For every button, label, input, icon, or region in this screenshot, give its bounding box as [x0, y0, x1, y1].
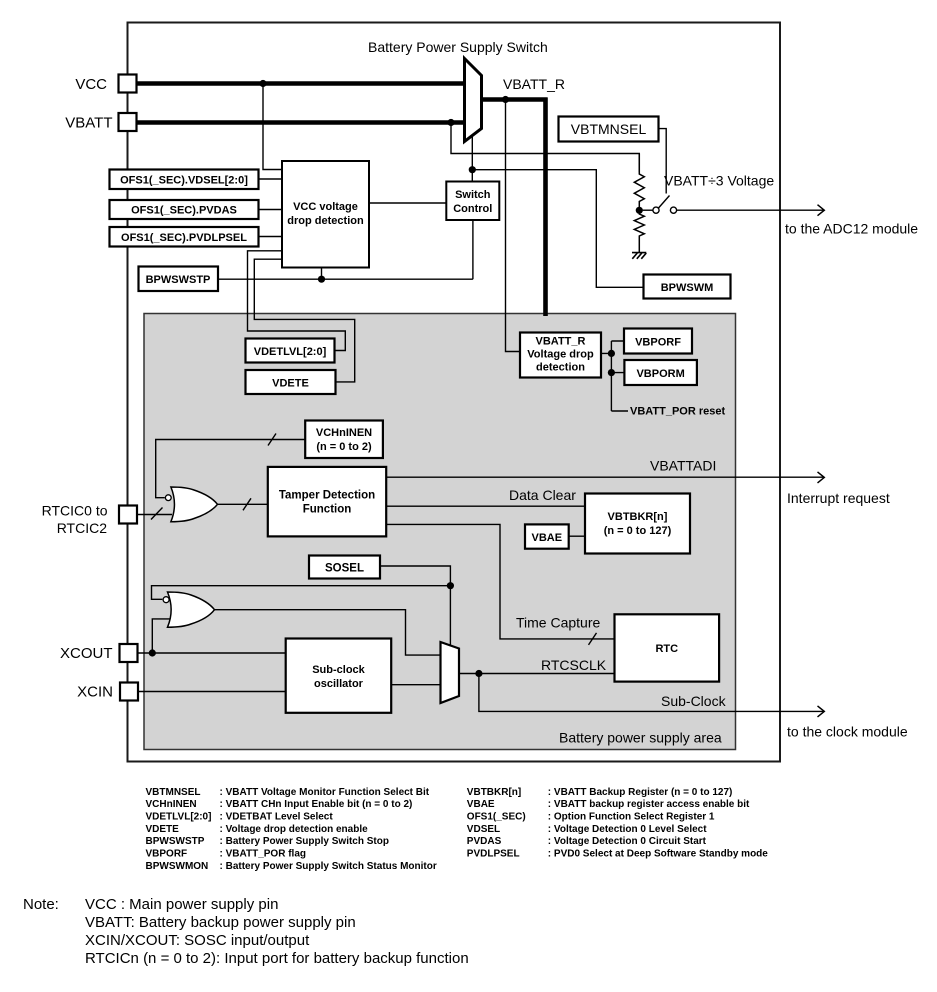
register box OFS1(_SEC).PVDLPSEL [110, 227, 259, 247]
register box VBTBKR[n] [585, 494, 690, 554]
wire: PVDAS to VCC drop detection [259, 209, 283, 211]
register box VBPORF [624, 329, 692, 354]
svg-text:VBPORF: VBPORF [635, 337, 681, 349]
svg-text:VDSEL: VDSEL [467, 824, 500, 835]
label to the clock module [787, 724, 908, 740]
wire: switch bottom vertex to switch control [471, 136, 473, 182]
label Time Capture [516, 615, 601, 631]
svg-text:VBATT: Battery backup power su: VBATT: Battery backup power supply pin [85, 914, 356, 931]
legend right column [467, 787, 768, 860]
pin VCC [75, 75, 136, 94]
pin XCOUT [60, 644, 138, 662]
svg-text:drop detection: drop detection [287, 215, 364, 227]
bus slash on G1 output [243, 498, 251, 510]
svg-text:Note:: Note: [23, 896, 59, 913]
wire: mux output RTCSCLK to RTC [459, 673, 615, 675]
label RTCSCLK [541, 657, 607, 673]
svg-text:Voltage drop: Voltage drop [527, 349, 594, 361]
legend left column [146, 787, 437, 872]
svg-text:XCIN/XCOUT: SOSC input/output: XCIN/XCOUT: SOSC input/output [85, 932, 310, 949]
svg-text:(n = 0 to 2): (n = 0 to 2) [316, 441, 372, 453]
svg-text:XCOUT: XCOUT [60, 645, 113, 662]
svg-text:to the ADC12 module: to the ADC12 module [785, 221, 918, 237]
svg-text:Function: Function [303, 504, 352, 516]
svg-text:RTCSCLK: RTCSCLK [541, 657, 607, 673]
svg-text:VBATTADI: VBATTADI [650, 458, 716, 474]
svg-text:VCC voltage: VCC voltage [293, 201, 358, 213]
svg-text:VBTBKR[n]: VBTBKR[n] [467, 787, 521, 798]
wire: oscillator output to mux [391, 684, 440, 686]
svg-text:VBTMNSEL: VBTMNSEL [571, 121, 647, 137]
svg-text:: Option Function Select Regis: : Option Function Select Register 1 [548, 812, 715, 823]
register box BPWSWSTP [139, 267, 219, 292]
node: RTCSCLK junction dot [475, 670, 482, 677]
node: VBATT_R junction dot [502, 96, 509, 103]
wire: VBATTADI interrupt line with arrow [386, 472, 824, 483]
wire: VCC drop detection to VDETLVL [248, 251, 346, 351]
block: VCC voltage drop detection U1 [282, 161, 369, 268]
svg-text:VBPORF: VBPORF [146, 848, 188, 859]
svg-text:RTCIC0 to: RTCIC0 to [42, 503, 108, 519]
register box VDETE [246, 370, 336, 394]
wire: VBATT thick rail [128, 120, 465, 125]
svg-text:Switch: Switch [455, 189, 491, 201]
wire: VBATT_R tap down to VBATT_R voltage drop detection [506, 100, 521, 352]
wire: VCC tap to VCC voltage drop detection [263, 84, 282, 170]
svg-text:VCC: VCC [75, 76, 107, 93]
svg-text:detection: detection [536, 362, 585, 374]
pin RTCIC0 to RTCIC2 [42, 503, 137, 537]
battery power supply area (gray region) [144, 314, 736, 750]
register box VBTMNSEL [559, 117, 659, 142]
wire: VCC drop detection to VDETE [254, 259, 354, 382]
block: Sub-clock oscillator [286, 639, 392, 713]
svg-text:: VBATT Voltage Monitor Functi: : VBATT Voltage Monitor Function Select … [220, 787, 430, 798]
wire: BPWSWSTP to switch control [218, 220, 473, 279]
wire: VCC drop detection to switch control [369, 202, 446, 204]
svg-text:VBAE: VBAE [532, 532, 563, 544]
battery power supply switch (trapezoid mux) [465, 59, 482, 142]
wire: VCC thick rail [128, 81, 465, 86]
wire: RTCIC pin to OR gate [137, 514, 172, 516]
node: VBPORM junction dot [608, 369, 615, 376]
svg-text:RTC: RTC [655, 643, 678, 655]
svg-text:PVDAS: PVDAS [467, 836, 502, 847]
label VBATT divide by 3 voltage [664, 173, 774, 189]
svg-text:VCHnINEN: VCHnINEN [146, 799, 197, 810]
svg-text:OFS1(_SEC): OFS1(_SEC) [467, 812, 526, 823]
node: divider tap dot [636, 207, 643, 214]
svg-text:VBTBKR[n]: VBTBKR[n] [608, 511, 668, 523]
block: Switch Control [446, 182, 499, 221]
wire: VBATT_R thick output [481, 98, 548, 317]
svg-text:OFS1(_SEC).PVDLPSEL: OFS1(_SEC).PVDLPSEL [121, 232, 247, 244]
svg-text:VBPORM: VBPORM [636, 368, 684, 380]
svg-text:: VBATT_POR flag: : VBATT_POR flag [220, 848, 306, 859]
wire: VDSEL to VCC drop detection [259, 178, 283, 180]
svg-text:: Battery Power Supply Switch: : Battery Power Supply Switch Status Mon… [220, 861, 437, 872]
register box SOSEL [309, 556, 380, 579]
svg-text:: VBATT CHn Input Enable bit (: : VBATT CHn Input Enable bit (n = 0 to 2… [220, 799, 413, 810]
svg-text:to the clock module: to the clock module [787, 724, 908, 740]
wire: PVDLPSEL to VCC drop detection [259, 236, 283, 238]
or-gate G1 (tamper input) [165, 487, 217, 522]
svg-text:VBATT_R: VBATT_R [503, 76, 565, 92]
svg-text:VCHnINEN: VCHnINEN [316, 427, 372, 439]
register box BPWSWM [644, 275, 731, 299]
svg-text:(n = 0 to 127): (n = 0 to 127) [604, 525, 672, 537]
bus slash on VCHnINEN wire [268, 434, 276, 446]
wire: tamper to RTC time capture [386, 524, 614, 639]
svg-text:Tamper Detection: Tamper Detection [279, 490, 375, 502]
svg-text:: VBATT backup register access: : VBATT backup register access enable bi… [548, 799, 750, 810]
block: Tamper Detection Function [268, 467, 386, 537]
wire: SOSEL to mux select [380, 566, 450, 647]
svg-text:VBATT÷3 Voltage: VBATT÷3 Voltage [664, 173, 774, 189]
wire: divider output to ADC12 with arrow [677, 205, 825, 216]
block: VBATT_R voltage drop detection [520, 333, 601, 378]
resistor R2 [634, 210, 644, 252]
svg-text:VDETE: VDETE [272, 378, 309, 390]
svg-text:: VDETBAT Level Select: : VDETBAT Level Select [220, 812, 334, 823]
svg-text:VDETE: VDETE [146, 824, 180, 835]
title: Battery Power Supply Switch [368, 39, 548, 55]
svg-text:: Battery Power Supply Switch: : Battery Power Supply Switch Stop [220, 836, 389, 847]
clock mux (trapezoid) [441, 642, 460, 703]
node: VCC junction dot [259, 80, 266, 87]
svg-text:Control: Control [453, 203, 492, 215]
svg-text:Data Clear: Data Clear [509, 487, 576, 503]
register box VBAE [525, 524, 569, 548]
svg-text:VBATT: VBATT [65, 115, 112, 132]
node: BPWSWSTP junction dot [318, 276, 325, 283]
svg-text:: Voltage Detection 0 Circuit: : Voltage Detection 0 Circuit Start [548, 836, 707, 847]
svg-text:Time Capture: Time Capture [516, 615, 601, 631]
svg-text:OFS1(_SEC).PVDAS: OFS1(_SEC).PVDAS [131, 205, 237, 217]
register box OFS1(_SEC).VDSEL[2:0] [110, 170, 259, 190]
label VBATTADI [650, 458, 716, 474]
bus slash on time capture wire [589, 633, 597, 645]
svg-text:SOSEL: SOSEL [325, 563, 364, 575]
svg-text:Interrupt request: Interrupt request [787, 490, 890, 506]
node: XCOUT junction dot [149, 649, 156, 656]
wire: VBAE to VBTBKR [569, 535, 585, 537]
label VBATT_R [503, 76, 565, 92]
module outer border [128, 23, 781, 762]
wire: XCOUT to sub-clock oscillator [138, 619, 286, 653]
label Interrupt request [787, 490, 890, 506]
svg-text:OFS1(_SEC).VDSEL[2:0]: OFS1(_SEC).VDSEL[2:0] [120, 175, 248, 187]
svg-text:Sub-Clock: Sub-Clock [661, 693, 727, 709]
svg-text:BPWSWSTP: BPWSWSTP [146, 836, 205, 847]
wire: junction to BPWSWM [472, 170, 643, 288]
wire: G2 output to mux input [215, 610, 441, 655]
note block [23, 896, 469, 967]
node: VBPORF junction dot [608, 350, 615, 357]
pin XCIN [77, 683, 138, 701]
svg-text:Sub-clock: Sub-clock [312, 664, 365, 676]
wire: VBATT tap to resistor divider [451, 123, 639, 173]
svg-text:VBATT_R: VBATT_R [536, 336, 586, 348]
wire: sub-clock line to clock module with arrow [479, 674, 824, 717]
wire: VBTMNSEL to analog switch control [659, 129, 667, 194]
label VBATT_POR reset [630, 406, 725, 418]
svg-text:RTCIC2: RTCIC2 [57, 520, 108, 536]
wire: data clear line [386, 505, 585, 507]
block: RTC [615, 614, 720, 681]
svg-text:BPWSWMON: BPWSWMON [146, 861, 209, 872]
label Sub-Clock [661, 693, 727, 709]
wire: XCIN to sub-clock oscillator [138, 691, 286, 693]
register box VBPORM [624, 360, 697, 385]
wire: G1 output to tamper detection [218, 503, 268, 505]
register box VCHnINEN [305, 421, 383, 459]
svg-text:oscillator: oscillator [314, 678, 364, 690]
label Data Clear [509, 487, 576, 503]
svg-text:VDETLVL[2:0]: VDETLVL[2:0] [254, 346, 327, 358]
svg-text:: PVD0 Select at Deep Software: : PVD0 Select at Deep Software Standby m… [548, 848, 768, 859]
svg-text:BPWSWSTP: BPWSWSTP [146, 274, 211, 286]
svg-text:: Voltage Detection 0 Level Se: : Voltage Detection 0 Level Select [548, 824, 707, 835]
svg-text:: VBATT Backup Register (n = 0: : VBATT Backup Register (n = 0 to 127) [548, 787, 733, 798]
svg-text:VBAE: VBAE [467, 799, 495, 810]
node: VBATT junction dot [447, 119, 454, 126]
register box OFS1(_SEC).PVDAS [110, 200, 259, 219]
svg-text:RTCICn (n = 0 to 2): Input por: RTCICn (n = 0 to 2): Input port for batt… [85, 950, 469, 967]
svg-text:VBATT_POR reset: VBATT_POR reset [630, 406, 725, 418]
svg-text:Battery Power Supply Switch: Battery Power Supply Switch [368, 39, 548, 55]
pin VBATT [65, 113, 136, 132]
or-gate G2 (sub-clock enable) [163, 592, 214, 627]
resistor R1 [634, 154, 644, 211]
svg-text:VDETLVL[2:0]: VDETLVL[2:0] [146, 812, 212, 823]
analog switch SW1 [643, 196, 677, 214]
svg-text:XCIN: XCIN [77, 684, 113, 701]
svg-text:BPWSWM: BPWSWM [661, 282, 714, 294]
svg-text:VCC : Main power supply pin: VCC : Main power supply pin [85, 896, 278, 913]
wire: VBATT_R detection outputs to VBPORF/VBPORM/POR [601, 341, 628, 411]
svg-text:PVDLPSEL: PVDLPSEL [467, 848, 520, 859]
wire: VCHnINEN to OR gate inverted input [156, 440, 306, 498]
svg-text:VBTMNSEL: VBTMNSEL [146, 787, 201, 798]
register box VDETLVL[2:0] [246, 339, 335, 363]
label to the ADC12 module [785, 221, 918, 237]
svg-text:Battery power supply area: Battery power supply area [559, 730, 722, 746]
node: switch control junction dot [469, 166, 476, 173]
ground [632, 253, 646, 259]
wire: SOSEL branch to OR gate G2 inverted input [152, 586, 451, 600]
node: SOSEL junction dot [447, 582, 454, 589]
bus slash on RTCIC wire [151, 508, 163, 520]
svg-text:: Voltage drop detection enabl: : Voltage drop detection enable [220, 824, 369, 835]
